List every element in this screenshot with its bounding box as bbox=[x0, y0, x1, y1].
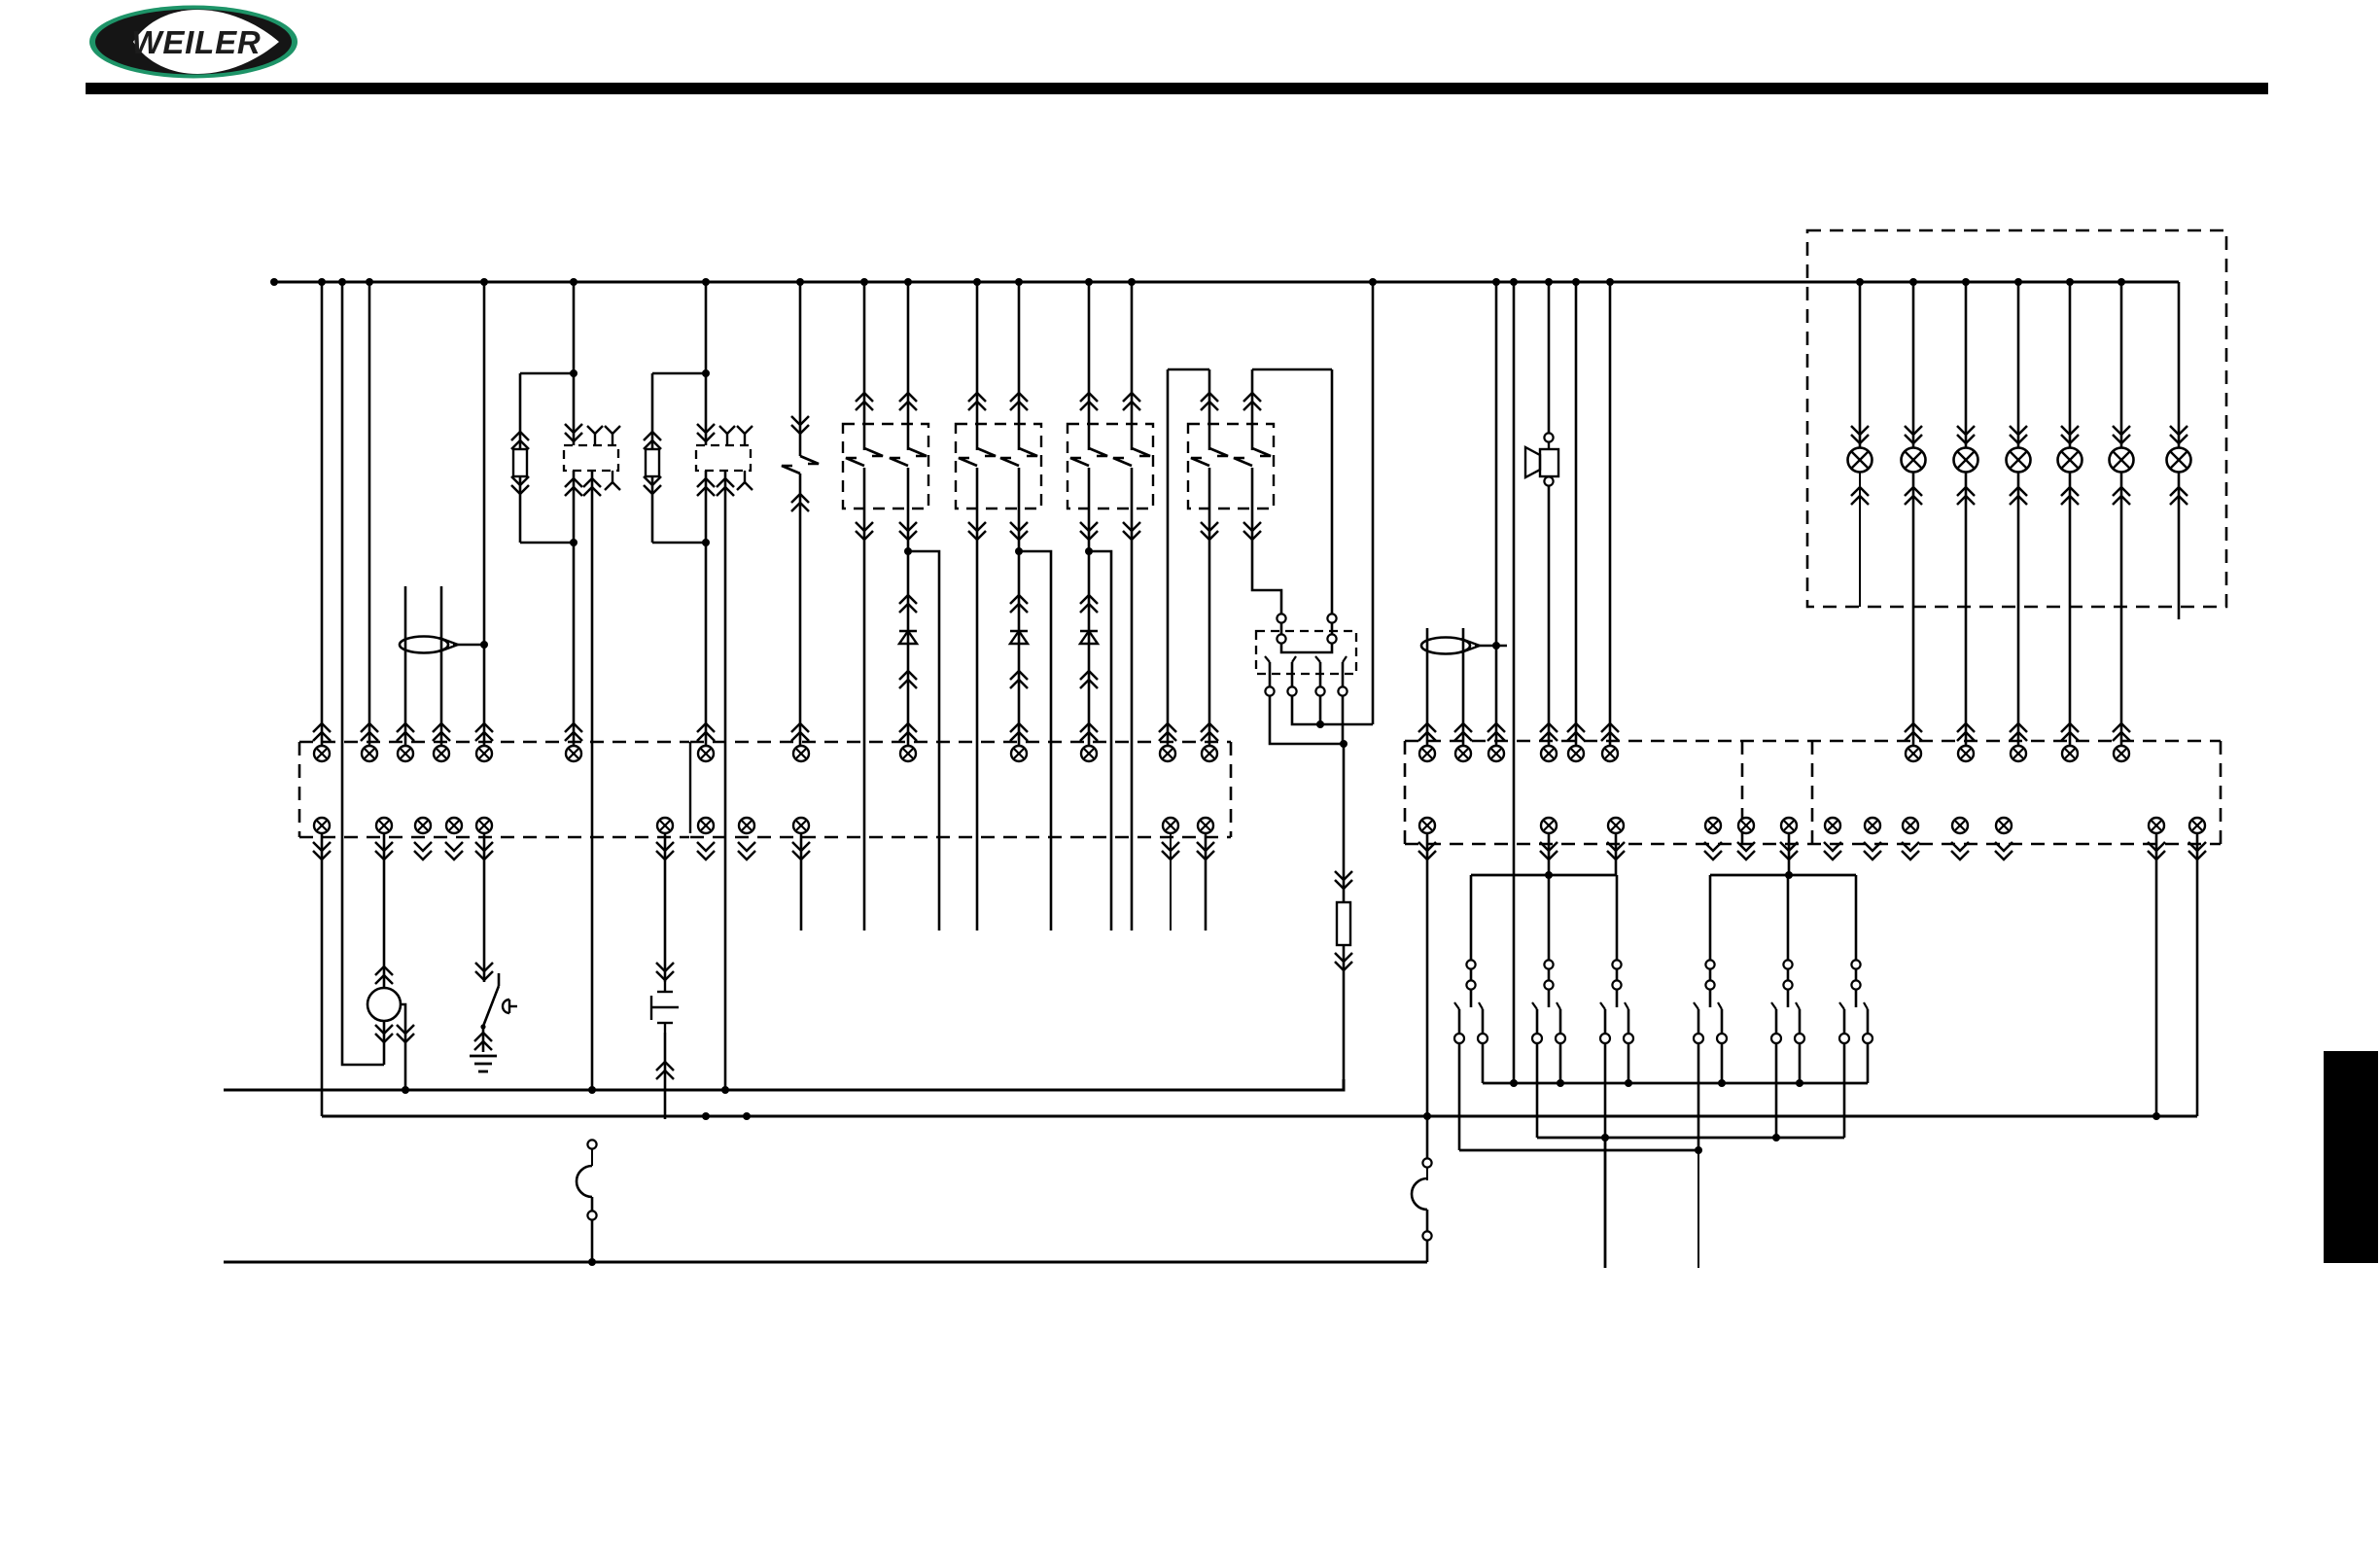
connector pin bottom x1468 bbox=[1419, 818, 1435, 833]
switch S6 prong R bbox=[1721, 1009, 1724, 1034]
wire flasher bridge bbox=[1281, 644, 1332, 652]
wire resistor R2 upper lead bbox=[651, 373, 654, 449]
wire diode D3 branch bbox=[1089, 551, 1111, 931]
terminal horn upper bbox=[1544, 433, 1553, 441]
wire staple link S1 bbox=[1168, 369, 1209, 371]
wire lamp L3 upper bbox=[1957, 282, 1975, 447]
connector pins resistor R1 bottom bbox=[511, 485, 529, 494]
breaker box CB4 bbox=[1188, 424, 1274, 509]
wire switch rail feed right bbox=[1788, 833, 1791, 875]
connector pins CB1b top bbox=[899, 393, 917, 402]
node bus junction x1593 bbox=[1545, 278, 1553, 286]
node bus junction x498 bbox=[480, 278, 488, 286]
wire S6 throw R drop bbox=[1721, 1043, 1724, 1083]
wire switch rail feed left bbox=[1548, 833, 1551, 875]
wire S6 blade bbox=[1709, 990, 1712, 1007]
node column feed rail R1 bbox=[1510, 1079, 1518, 1087]
node bus junction x726 bbox=[702, 278, 710, 286]
connector pin top x824 bbox=[793, 746, 809, 761]
wire S8 inter bbox=[1855, 969, 1858, 981]
lamp cluster box bbox=[1807, 230, 2226, 607]
connector pins D2 output plug bbox=[1010, 723, 1028, 732]
wire fuse F2 to ground bus 3 bbox=[1426, 1241, 1429, 1262]
wire bus drop to flasher bbox=[1372, 282, 1375, 724]
wire feeder to connector J1-1 bbox=[321, 282, 324, 746]
wire staple S2 right leg bbox=[1331, 369, 1334, 614]
terminal fuse F1 upper bbox=[587, 1140, 596, 1148]
connector pin bottom x1204 bbox=[1163, 818, 1178, 833]
node bus junction x1621 bbox=[1572, 278, 1580, 286]
wire lamp L1 upper bbox=[1851, 282, 1869, 447]
connector pins key switch bottom bbox=[474, 1033, 492, 1041]
wire S3 throw L drop bbox=[1458, 1043, 1461, 1150]
wire pickup output bbox=[453, 644, 484, 647]
breaker CB2b bbox=[1019, 448, 1037, 456]
diode D2 bbox=[1010, 631, 1028, 644]
wire S8 upper bbox=[1855, 875, 1858, 961]
connector pin bottom x1926 bbox=[1865, 818, 1880, 833]
terminal fuse F1 lower bbox=[587, 1211, 596, 1219]
switch S8 prong R bbox=[1867, 1009, 1870, 1034]
wire ground bus 2 bbox=[322, 1115, 2197, 1118]
wire flasher out4 run bbox=[1342, 696, 1345, 744]
connector pin top x2129 bbox=[2062, 746, 2078, 761]
wire switch rail right group bbox=[1710, 874, 1856, 877]
wire feeder key switch supply bbox=[483, 282, 486, 746]
Weiler logo black eye bbox=[95, 10, 292, 75]
connector pins pickup lead A plug bbox=[397, 723, 414, 732]
terminal flasher out 3 bbox=[1315, 686, 1324, 695]
wire S3 upper bbox=[1470, 875, 1473, 961]
node S7R rail R1 bbox=[1796, 1079, 1803, 1087]
wire flasher pin B stub bbox=[1331, 623, 1334, 644]
connector pin bottom x1885 bbox=[1825, 818, 1840, 833]
node bus junction x1412 bbox=[1369, 278, 1377, 286]
wire relay K2 feed bbox=[705, 282, 708, 373]
connector pins relay K2 coil bottom bbox=[697, 478, 715, 487]
wire S5 blade bbox=[1616, 990, 1619, 1007]
wire relay K2 coil upper bbox=[705, 373, 708, 445]
node bus junction x889 bbox=[860, 278, 868, 286]
node bus junction x2022 bbox=[1962, 278, 1970, 286]
lamp L6 bbox=[2110, 448, 2134, 473]
wire main positive bus bbox=[274, 281, 2179, 284]
wire S5 throw R drop bbox=[1627, 1043, 1630, 1083]
connector pins S1 left plug bbox=[1159, 723, 1176, 732]
node J2 return A ground bbox=[702, 1112, 710, 1120]
wire relay K1 coil lower bbox=[573, 471, 576, 543]
terminal S7 plug B bbox=[1783, 980, 1792, 989]
wire resistor R1 upper lead bbox=[519, 373, 522, 449]
relay K1 coil box bbox=[564, 445, 618, 471]
wire auxiliary run J2-1 bbox=[800, 833, 803, 931]
node motor side ground bbox=[402, 1086, 409, 1094]
wire feeder J3-5 bbox=[1575, 282, 1578, 746]
switch S4 prong R bbox=[1559, 1009, 1562, 1034]
wire lamp L1 lower bbox=[1859, 473, 1861, 607]
connector pins resistor R2 bottom bbox=[644, 485, 661, 494]
wire rail R2 bbox=[1537, 1137, 1844, 1140]
terminal S7 plug A bbox=[1783, 960, 1792, 968]
node bus junction x331 bbox=[318, 278, 326, 286]
wire S5 upper bbox=[1616, 875, 1619, 961]
connector pins CB3a top bbox=[1080, 393, 1098, 402]
terminal fuse F2 lower bbox=[1422, 1231, 1431, 1240]
wire feeder horn relay bypass bbox=[342, 282, 384, 1065]
connector pin top x1621 bbox=[1568, 746, 1584, 761]
terminal S8 throw R bbox=[1863, 1034, 1872, 1043]
wire ground bus 1 bbox=[224, 1079, 1344, 1090]
wire breaker CB4b jog bbox=[1252, 468, 1281, 614]
terminal S6 throw L bbox=[1694, 1034, 1703, 1043]
wire auxiliary run J2-5 bbox=[1205, 833, 1207, 931]
wire fuse F2 gap upper bbox=[1426, 1168, 1428, 1180]
wire relay K2 bottom rail bbox=[652, 542, 706, 544]
wire relay K2 top rail bbox=[652, 372, 706, 375]
connector pins resistor R2 top bbox=[644, 432, 661, 440]
wire oval2 output bbox=[1475, 645, 1507, 648]
terminal flasher pin A upper bbox=[1277, 614, 1285, 622]
wire breaker CB2b upper bbox=[1018, 282, 1021, 450]
connector pins CB1a top bbox=[856, 393, 873, 402]
wire rail R3 bbox=[1459, 1149, 1699, 1152]
wire relay K1 output to connector bbox=[573, 543, 576, 746]
terminal S8 plug B bbox=[1851, 980, 1860, 989]
terminal S6 plug B bbox=[1705, 980, 1714, 989]
terminal S6 throw R bbox=[1717, 1034, 1727, 1043]
fuse F2 arc bbox=[1412, 1178, 1427, 1210]
node bus junction x1557 bbox=[1510, 278, 1518, 286]
terminal flasher pin B lower bbox=[1327, 634, 1336, 643]
connector pins lamp L2 plug bbox=[1905, 723, 1922, 732]
connector pins J3-5 plug bbox=[1567, 723, 1585, 732]
terminal S8 throw L bbox=[1839, 1034, 1849, 1043]
wire horn to connector bbox=[1548, 486, 1551, 746]
connector box J2 outline bbox=[690, 741, 1231, 744]
wire lamp L2 lower bbox=[1912, 473, 1915, 746]
lamp L7 bbox=[2167, 448, 2191, 473]
terminal S3 plug B bbox=[1466, 980, 1475, 989]
connector pin top x1539 bbox=[1488, 746, 1504, 761]
wire S7 throw L drop bbox=[1775, 1043, 1778, 1138]
wire relay K1 87 long run bbox=[591, 471, 594, 1090]
wire ballast upper lead bbox=[1343, 744, 1346, 902]
connector pin top x1048 bbox=[1011, 746, 1027, 761]
wire breaker CB1a upper bbox=[863, 282, 866, 450]
connector pins relay K2 coil top bbox=[697, 433, 715, 441]
wire resistor R1 lower lead bbox=[519, 476, 522, 543]
wire push switch lower bbox=[664, 1033, 667, 1119]
breaker box CB3 bbox=[1067, 424, 1153, 509]
connector pin top x417 bbox=[398, 746, 413, 761]
node bus junction x1048 bbox=[1015, 278, 1023, 286]
connector pins J3-6 plug bbox=[1601, 723, 1619, 732]
flasher contact box bbox=[1256, 631, 1356, 674]
wire flasher out3 run bbox=[1319, 696, 1322, 724]
wire S7 inter bbox=[1787, 969, 1790, 981]
connector pins lamp L4 plug bbox=[2010, 723, 2027, 732]
breaker box CB2 bbox=[956, 424, 1041, 509]
wire S6 throw L drop bbox=[1697, 1043, 1700, 1150]
connector pins ballast bottom bbox=[1335, 962, 1352, 970]
connector pin bottom x331 bbox=[314, 818, 330, 833]
connector box J3 outline bbox=[1405, 740, 2221, 743]
wire feeder through oval2 tap bbox=[1495, 282, 1498, 746]
wire S7 upper bbox=[1787, 875, 1790, 961]
wire flasher out1 run bbox=[1270, 696, 1344, 744]
connector pins CB4b bottom bbox=[1243, 531, 1261, 540]
node bus junction x1968 bbox=[1909, 278, 1917, 286]
Weiler logo green outer ellipse bbox=[89, 6, 297, 79]
wire S5 inter bbox=[1616, 969, 1619, 981]
connector pins CB2b top bbox=[1010, 393, 1028, 402]
connector pins diode D1 top bbox=[899, 595, 917, 604]
wire motor lower lead bbox=[383, 1021, 386, 1065]
connector pins lamp L5 plug bbox=[2061, 723, 2079, 732]
wire switch rail left group bbox=[1471, 874, 1617, 877]
terminal S7 throw L bbox=[1771, 1034, 1781, 1043]
connector pin bottom x1593 bbox=[1541, 818, 1557, 833]
wire breaker CB1b upper bbox=[907, 282, 910, 450]
connector pin bottom x726 bbox=[698, 818, 714, 833]
wire flasher prong 4 bbox=[1342, 662, 1345, 686]
node bus junction x590 bbox=[570, 278, 577, 286]
wire lamp L4 lower bbox=[2017, 473, 2020, 746]
node relay K2 out bbox=[702, 539, 710, 546]
switch S6 prong L bbox=[1697, 1009, 1700, 1034]
switch S8 prong L bbox=[1843, 1009, 1846, 1034]
wire staple S1 left leg bbox=[1167, 369, 1170, 746]
node relay K1 out bbox=[570, 539, 577, 546]
wire staple link S2 bbox=[1252, 369, 1332, 371]
node flasher rail join bbox=[1316, 720, 1324, 728]
terminal S6 plug A bbox=[1705, 960, 1714, 968]
wire relay K1 top rail bbox=[520, 372, 574, 375]
wire lamp L6 lower bbox=[2120, 473, 2123, 746]
connector pins D3 output plug bbox=[1080, 723, 1098, 732]
connector pin top x1593 bbox=[1541, 746, 1557, 761]
lamp L2 bbox=[1902, 448, 1926, 473]
connector pins motor side bbox=[397, 1034, 414, 1042]
wire diode D1 run bbox=[907, 551, 910, 746]
terminal S4 plug B bbox=[1544, 980, 1553, 989]
wire breaker CB0 upper bbox=[799, 282, 802, 456]
node bus junction x2182 bbox=[2117, 278, 2125, 286]
wire oval2 lead A bbox=[1426, 628, 1429, 746]
wire S6 inter bbox=[1709, 969, 1712, 981]
wire lamp L6 upper bbox=[2113, 282, 2130, 447]
node bus junction x934 bbox=[904, 278, 912, 286]
node fuse F1 out bbox=[588, 1258, 596, 1266]
connector pin bottom x498 bbox=[476, 818, 492, 833]
wire fuse F1 gap lower bbox=[591, 1197, 594, 1211]
connector pins CB3b bottom bbox=[1123, 531, 1140, 540]
node bus junction x1164 bbox=[1128, 278, 1136, 286]
connector pins K2 output plug bbox=[697, 723, 715, 732]
terminal S5 throw R bbox=[1624, 1034, 1633, 1043]
wire relay K1 coil upper bbox=[573, 373, 576, 445]
connector pins lamp L6 plug bbox=[2113, 723, 2130, 732]
terminal flasher pin A lower bbox=[1277, 634, 1285, 643]
wire flasher prong 1 bbox=[1269, 662, 1272, 686]
connector pins ballast top bbox=[1335, 880, 1352, 889]
node switch rail right feed bbox=[1785, 871, 1793, 879]
connector pin bottom x1965 bbox=[1903, 818, 1918, 833]
wire ballast lower lead bbox=[1343, 945, 1346, 1090]
connector pins CB1b bottom bbox=[899, 531, 917, 540]
connector pin bottom x1840 bbox=[1781, 818, 1797, 833]
wire S5 throw L extension bbox=[1604, 1138, 1607, 1268]
terminal S5 throw L bbox=[1600, 1034, 1610, 1043]
wire lamp L3 lower bbox=[1965, 473, 1968, 746]
connector pin top x1656 bbox=[1602, 746, 1618, 761]
wire S7 blade bbox=[1787, 990, 1790, 1007]
connector pin bottom x684 bbox=[657, 818, 673, 833]
connector pin top x1244 bbox=[1202, 746, 1217, 761]
wire feeder to connector J1-2 bbox=[368, 282, 371, 746]
connector pin top x380 bbox=[362, 746, 377, 761]
wire S4 throw L drop bbox=[1536, 1043, 1539, 1138]
breaker CB0 bbox=[800, 456, 819, 464]
wire lamp L2 upper bbox=[1905, 282, 1922, 447]
wire key switch upper bbox=[483, 833, 486, 982]
wire flasher out2 run bbox=[1292, 696, 1373, 724]
wire lamp L7 lower bbox=[2178, 473, 2181, 619]
connector pins CB4a top bbox=[1201, 393, 1218, 402]
connector pins CB1a bottom bbox=[856, 531, 873, 540]
wire diode D3 run bbox=[1088, 551, 1091, 746]
terminal flasher out 1 bbox=[1265, 686, 1274, 695]
wire S5 throw L drop bbox=[1604, 1043, 1607, 1138]
switch S3 prong L bbox=[1458, 1009, 1461, 1034]
ground key switch bbox=[470, 1055, 497, 1058]
push switch S2 bbox=[664, 982, 666, 992]
node oval2 tap bbox=[1492, 642, 1500, 650]
wire S4 blade bbox=[1548, 990, 1551, 1007]
connector box J1-J2 separator bbox=[689, 742, 691, 833]
connector pin bottom x435 bbox=[415, 818, 431, 833]
connector pins relay K1 87 lead bbox=[583, 478, 601, 487]
node bus junction x1120 bbox=[1085, 278, 1093, 286]
lamp L4 bbox=[2007, 448, 2031, 473]
wire S8 throw R drop bbox=[1867, 1043, 1870, 1083]
terminal S5 plug B bbox=[1612, 980, 1621, 989]
wire lamp L7 upper bbox=[2170, 282, 2187, 447]
wire relay K2 87 long run bbox=[724, 471, 727, 1090]
node pickup tap bbox=[480, 641, 488, 649]
connector pins CB4b top bbox=[1243, 393, 1261, 402]
connector pins J1-5 plug bbox=[475, 723, 493, 732]
connector pins relay K1 coil top bbox=[565, 433, 582, 441]
wire S4 throw R drop bbox=[1559, 1043, 1562, 1083]
node battery feed left end bbox=[270, 278, 278, 286]
key switch S1 bbox=[498, 973, 501, 986]
wire ground bus feed from J1-1 bbox=[321, 833, 324, 1116]
wire S3 throw R drop bbox=[1482, 1043, 1485, 1083]
node diode D2 tap bbox=[1015, 547, 1023, 555]
node bus junction x352 bbox=[338, 278, 346, 286]
wire fuse F1 gap upper bbox=[591, 1149, 593, 1166]
top rule bar bbox=[86, 83, 2268, 94]
wire oval2 lead B bbox=[1462, 628, 1465, 746]
connector pins oval2 A plug bbox=[1418, 723, 1436, 732]
terminal Y relay K2 85 bbox=[726, 434, 728, 445]
connector pins CB4a bottom bbox=[1201, 531, 1218, 540]
connector pin bottom x2016 bbox=[1952, 818, 1968, 833]
terminal S8 plug A bbox=[1851, 960, 1860, 968]
connector pin top x454 bbox=[434, 746, 449, 761]
wire flasher prong 3 bbox=[1319, 662, 1322, 686]
breaker CB1b bbox=[908, 448, 927, 456]
wire auxiliary run J2-4 bbox=[1170, 833, 1172, 931]
connector pin top x2076 bbox=[2011, 746, 2026, 761]
connector pin top x1968 bbox=[1906, 746, 1921, 761]
connector pin bottom x467 bbox=[446, 818, 462, 833]
wire breaker CB3b lower bbox=[1131, 468, 1134, 931]
node S6R rail R1 bbox=[1718, 1079, 1726, 1087]
wire feeder switch column bbox=[1513, 282, 1516, 1083]
connector pin bottom x1662 bbox=[1608, 818, 1624, 833]
connector box J4 outline bbox=[1811, 741, 1814, 844]
wire S7 throw R drop bbox=[1799, 1043, 1802, 1083]
connector pin top x1201 bbox=[1160, 746, 1175, 761]
wire motor side lead bbox=[401, 1004, 405, 1090]
wire pickup coil lead A bbox=[404, 586, 407, 746]
connector pins motor bottom bbox=[375, 1034, 393, 1042]
resistor ballast R3 bbox=[1337, 902, 1350, 945]
node diode D1 tap bbox=[904, 547, 912, 555]
terminal S3 throw R bbox=[1478, 1034, 1487, 1043]
connector pins resistor R1 top bbox=[511, 432, 529, 440]
wire S3 inter bbox=[1470, 969, 1473, 981]
wire relay K1 feed bbox=[573, 282, 576, 373]
breaker box CB1 bbox=[843, 424, 928, 509]
connector pins CB2a bottom bbox=[968, 531, 986, 540]
sender oval B1 bbox=[400, 637, 448, 653]
terminal S4 throw R bbox=[1556, 1034, 1565, 1043]
connector pins J1-2 plug bbox=[361, 723, 378, 732]
connector pins oval2 B plug bbox=[1454, 723, 1472, 732]
wire lamp L5 upper bbox=[2061, 282, 2079, 447]
switch S5 prong L bbox=[1604, 1009, 1607, 1034]
diode D3 bbox=[1080, 631, 1098, 644]
terminal S7 throw R bbox=[1795, 1034, 1804, 1043]
horn H1 bbox=[1548, 442, 1550, 449]
wire breaker CB0 lower bbox=[799, 474, 802, 746]
terminal horn lower bbox=[1544, 476, 1553, 485]
wire motor supply bbox=[383, 833, 386, 988]
node relay K1 rail bbox=[570, 369, 577, 377]
terminal flasher pin B upper bbox=[1327, 614, 1336, 622]
connector pins lamp L3 plug bbox=[1957, 723, 1975, 732]
terminal S3 throw L bbox=[1454, 1034, 1464, 1043]
node diode D3 tap bbox=[1085, 547, 1093, 555]
wire breaker CB3a upper bbox=[1088, 282, 1091, 450]
node bus junction x1005 bbox=[973, 278, 981, 286]
connector pins CB3b top bbox=[1123, 393, 1140, 402]
terminal Y relay K1 87a bbox=[612, 471, 613, 482]
wire tail lamp return B bbox=[2196, 833, 2199, 1116]
connector pin top x934 bbox=[900, 746, 916, 761]
wire tail lamp return A bbox=[2155, 833, 2158, 1116]
wire breaker CB3b upper bbox=[1131, 282, 1134, 450]
lamp L1 bbox=[1848, 448, 1872, 473]
connector pins breaker CB0 bottom bbox=[791, 494, 809, 503]
connector pins D1 output plug bbox=[899, 723, 917, 732]
connector pin top x331 bbox=[314, 746, 330, 761]
breaker CB2a bbox=[977, 448, 996, 456]
wire staple S1 right leg bbox=[1208, 369, 1211, 450]
